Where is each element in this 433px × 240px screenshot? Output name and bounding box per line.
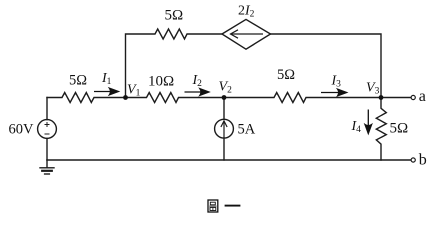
svg-text:5Ω: 5Ω [165,8,184,24]
svg-text:60V: 60V [9,122,35,138]
svg-text:10Ω: 10Ω [148,74,174,90]
svg-text:I3: I3 [331,74,342,90]
svg-text:5Ω: 5Ω [277,67,295,83]
svg-text:2I2: 2I2 [238,4,255,20]
svg-text:I2: I2 [192,73,203,89]
svg-text:a: a [419,88,426,105]
svg-text:V1: V1 [127,83,141,99]
svg-text:I1: I1 [101,71,112,87]
svg-text:V2: V2 [219,80,233,96]
svg-text:5A: 5A [238,122,256,138]
svg-text:5Ω: 5Ω [69,73,87,89]
svg-text:b: b [419,152,427,169]
svg-text:I4: I4 [351,119,362,135]
svg-text:5Ω: 5Ω [390,121,409,137]
svg-text:V3: V3 [366,81,380,97]
